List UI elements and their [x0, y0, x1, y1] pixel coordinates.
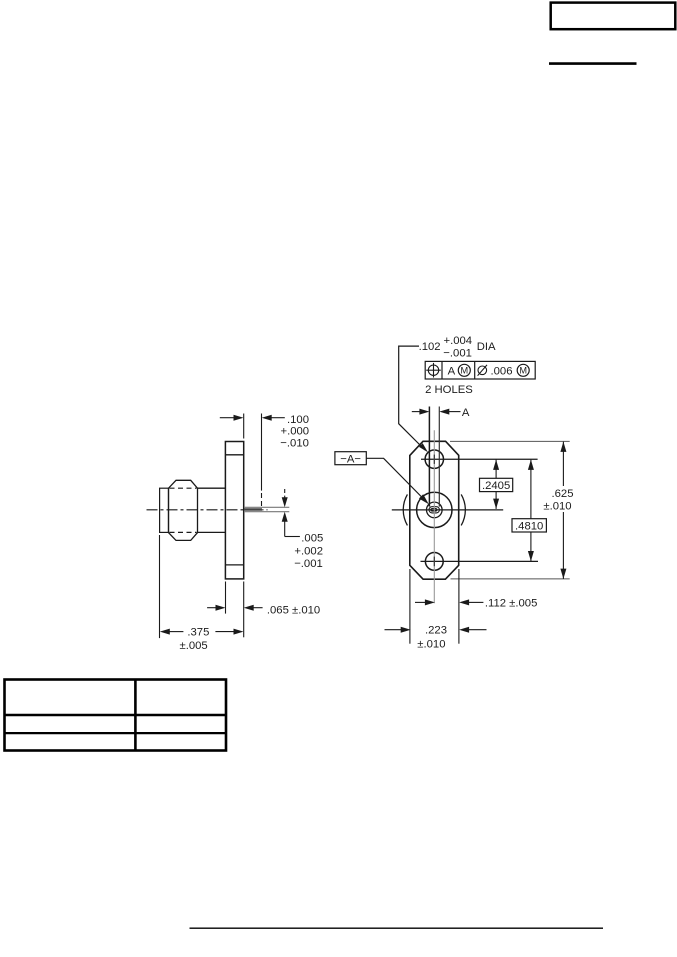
svg-text:.625: .625 — [552, 488, 574, 500]
svg-text:M: M — [519, 366, 527, 376]
svg-text:±.005: ±.005 — [180, 640, 208, 652]
svg-text:+.000: +.000 — [281, 426, 310, 438]
svg-text:.4810: .4810 — [515, 520, 543, 532]
svg-text:.112 ±.005: .112 ±.005 — [485, 597, 537, 609]
svg-text:A: A — [448, 365, 456, 377]
svg-text:−.001: −.001 — [294, 558, 323, 570]
svg-text:A: A — [462, 407, 470, 419]
svg-text:.006: .006 — [491, 365, 513, 377]
svg-text:−.010: −.010 — [280, 437, 309, 449]
svg-text:+.002: +.002 — [294, 545, 323, 557]
svg-text:M: M — [460, 366, 468, 376]
svg-text:.223: .223 — [425, 625, 447, 637]
svg-text:+.004: +.004 — [444, 335, 473, 347]
svg-text:.005: .005 — [301, 533, 323, 545]
svg-text:.102: .102 — [419, 341, 441, 353]
svg-text:.065 ±.010: .065 ±.010 — [267, 604, 320, 616]
svg-text:±.010: ±.010 — [417, 639, 445, 651]
svg-text:DIA: DIA — [477, 341, 496, 353]
svg-text:−A−: −A− — [340, 453, 361, 465]
svg-text:.100: .100 — [287, 414, 309, 426]
svg-text:.375: .375 — [187, 626, 209, 638]
svg-text:.2405: .2405 — [482, 480, 510, 492]
svg-text:2 HOLES: 2 HOLES — [425, 384, 473, 396]
svg-text:±.010: ±.010 — [543, 500, 571, 512]
svg-text:−.001: −.001 — [443, 348, 472, 360]
